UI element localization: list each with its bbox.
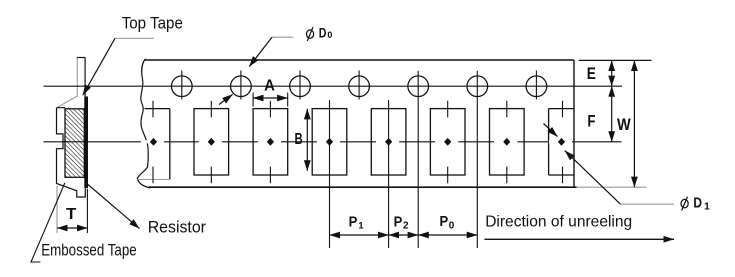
svg-text:P: P bbox=[440, 213, 449, 230]
svg-text:T: T bbox=[66, 206, 77, 223]
svg-text:E: E bbox=[587, 65, 596, 83]
svg-text:Top Tape: Top Tape bbox=[122, 15, 183, 33]
svg-text:D: D bbox=[693, 195, 702, 211]
svg-text:Resistor: Resistor bbox=[148, 218, 207, 236]
svg-text:1: 1 bbox=[358, 220, 363, 230]
svg-text:W: W bbox=[617, 116, 631, 134]
svg-text:Direction of unreeling: Direction of unreeling bbox=[485, 214, 632, 231]
svg-text:P: P bbox=[394, 213, 403, 230]
svg-text:0: 0 bbox=[449, 221, 455, 232]
svg-text:2: 2 bbox=[403, 221, 409, 232]
svg-text:1: 1 bbox=[704, 201, 710, 213]
svg-text:A: A bbox=[264, 78, 275, 95]
svg-text:D: D bbox=[319, 25, 327, 40]
svg-text:B: B bbox=[295, 131, 303, 148]
svg-text:0: 0 bbox=[327, 30, 332, 40]
svg-text:Embossed Tape: Embossed Tape bbox=[41, 240, 137, 259]
svg-text:F: F bbox=[587, 112, 595, 130]
svg-text:P: P bbox=[349, 213, 358, 230]
